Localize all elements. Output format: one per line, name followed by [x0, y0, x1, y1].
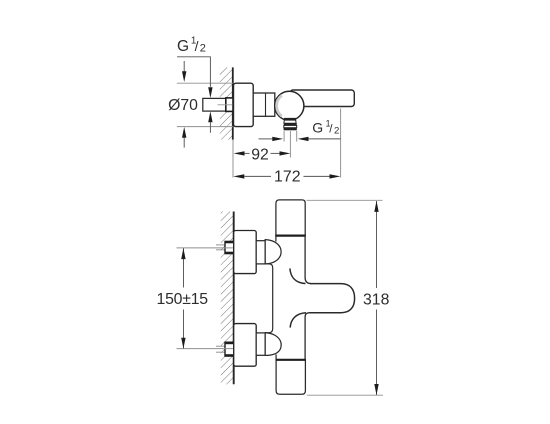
- lower union nut (bullet): [265, 333, 281, 356]
- upper union connector: [256, 241, 265, 264]
- svg-text:172: 172: [274, 169, 301, 186]
- circle inner shading: [277, 95, 282, 116]
- threaded sleeve in wall: [226, 98, 233, 112]
- pipe center dash: [218, 104, 233, 106]
- top cap of body tube: [276, 200, 305, 236]
- supply pipe stub (G 1/2 inlet): [203, 98, 226, 111]
- bottom cap joint line: [276, 359, 307, 361]
- G 1/2 outlet dimension arrows: [259, 138, 273, 140]
- extension line 150 bottom: [177, 348, 234, 350]
- top cap joint line: [275, 235, 306, 237]
- bottom cap of body tube: [276, 360, 305, 394]
- spout inner curve lower: [290, 313, 306, 328]
- outlet center extension line: [289, 131, 291, 158]
- lower in-wall fitting: [216, 342, 234, 356]
- extension line flange top (diameter 70): [177, 82, 233, 84]
- lower escutcheon: [234, 324, 257, 367]
- svg-text:92: 92: [251, 147, 269, 164]
- svg-text:2: 2: [200, 42, 206, 54]
- lever handle (side profile): [290, 90, 354, 107]
- arrow down to pipe top edge: [208, 87, 212, 98]
- extension line 150 top: [177, 247, 234, 249]
- diameter 70 lower arrow with tail: [182, 127, 186, 138]
- svg-text:150±15: 150±15: [156, 291, 208, 308]
- shower outlet nipple (G 1/2): [284, 118, 297, 130]
- upper in-wall fitting: [216, 241, 234, 253]
- wall hatch (top view): [220, 67, 233, 139]
- leader bracket for G 1/2 top: [177, 57, 210, 87]
- diameter 70 upper arrow with tail: [183, 61, 185, 72]
- upper union nut (bullet): [265, 240, 281, 264]
- wall hatch (side view): [221, 212, 234, 385]
- label G 1/2 (bottom outlet): [312, 118, 339, 136]
- outlet extension line right: [296, 131, 298, 142]
- extension line 318 top: [307, 199, 383, 201]
- svg-text:G: G: [177, 38, 189, 55]
- spout tongue (handle in side view): [310, 284, 355, 313]
- outlet extension line left: [283, 131, 285, 142]
- svg-text:/: /: [195, 38, 199, 54]
- svg-text:2: 2: [334, 126, 339, 137]
- tube left edge lower stub: [275, 355, 277, 360]
- svg-text:G: G: [312, 119, 323, 135]
- body base plate edge: [265, 264, 273, 333]
- tube left edge upper stub: [275, 236, 277, 242]
- tube right edge upper: [305, 236, 311, 284]
- valve body cylinder: [253, 93, 275, 116]
- svg-text:318: 318: [363, 292, 390, 309]
- dimension 150 +/- 15: [156, 248, 208, 349]
- wall face line (top view): [232, 67, 234, 139]
- arrow up to pipe bottom edge with tail: [208, 111, 212, 122]
- svg-text:Ø70: Ø70: [168, 97, 198, 114]
- dimension 92: [234, 147, 291, 164]
- spout inner curve upper: [290, 268, 306, 283]
- wall face line (side view): [233, 212, 235, 385]
- tube right edge lower: [305, 313, 309, 317]
- label G 1/2 (top inlet): [177, 36, 206, 56]
- body joint line: [265, 93, 267, 116]
- extension line flange bottom (diameter 70): [177, 126, 233, 128]
- lower union connector: [256, 333, 265, 355]
- extension line 318 bottom: [307, 394, 383, 396]
- handle tip extension line: [340, 109, 342, 178]
- dimension 318: [363, 201, 390, 395]
- upper escutcheon: [234, 231, 257, 274]
- handle cartridge circle: [275, 91, 304, 120]
- wall extension line down: [232, 140, 234, 178]
- wall flange (escutcheon): [234, 83, 254, 126]
- dimension 172: [233, 169, 340, 186]
